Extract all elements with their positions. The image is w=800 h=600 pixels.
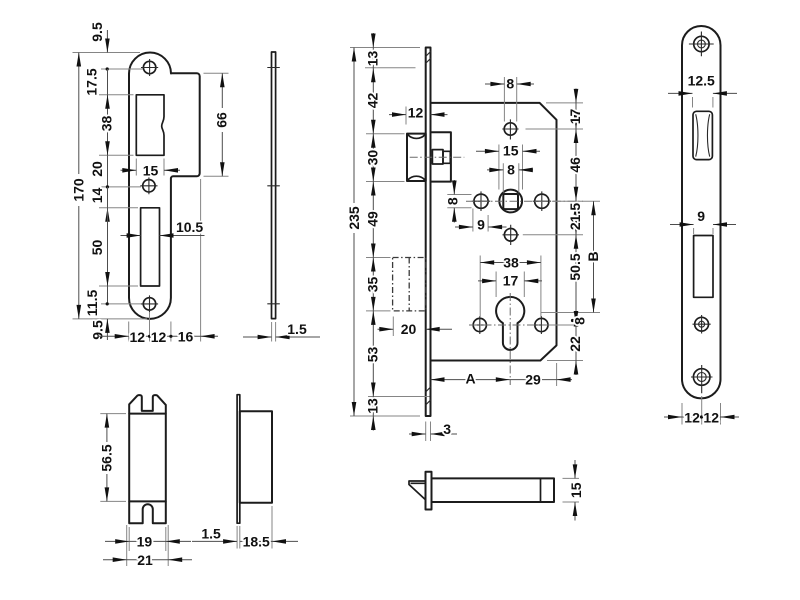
dimension 21	[103, 552, 192, 568]
svg-text:35: 35	[364, 277, 380, 293]
dimension 170	[71, 53, 87, 319]
svg-text:13: 13	[364, 51, 380, 67]
svg-text:19: 19	[137, 534, 153, 550]
strike box side view box	[240, 411, 272, 503]
faceplate bottom screw hole	[691, 365, 713, 393]
chain arrows	[371, 34, 376, 431]
extension lines 1.5 and 18.5	[237, 506, 272, 549]
right chain arrows	[574, 89, 579, 375]
dimension 20 left	[89, 155, 109, 188]
screw hole top	[141, 59, 158, 76]
dimension 8 mid hole diameter	[444, 180, 471, 223]
svg-text:12: 12	[684, 409, 700, 425]
svg-text:15: 15	[503, 143, 519, 159]
svg-text:12: 12	[408, 105, 424, 121]
dimension 50	[89, 208, 110, 286]
svg-text:11.5: 11.5	[84, 290, 100, 317]
svg-text:18.5: 18.5	[243, 534, 270, 550]
extension lines 15	[563, 478, 580, 502]
strike box bottom flange with slot	[129, 501, 166, 523]
faceplate top screw hole countersunk	[689, 32, 714, 57]
faceplate deadbolt window	[694, 236, 713, 298]
svg-text:66: 66	[214, 112, 230, 128]
svg-text:3: 3	[443, 421, 451, 437]
svg-text:56.5: 56.5	[99, 444, 115, 471]
svg-text:9: 9	[697, 208, 705, 224]
extension lines 66	[204, 73, 229, 176]
svg-text:8: 8	[506, 76, 514, 92]
dimension 11.5	[84, 286, 109, 316]
faceplate middle screw hole	[693, 315, 711, 334]
dimension 56.5	[99, 414, 115, 502]
svg-text:29: 29	[525, 371, 541, 387]
svg-text:9: 9	[477, 217, 485, 233]
latch stem	[443, 151, 450, 163]
dimension 9	[455, 209, 507, 233]
svg-text:50: 50	[89, 240, 105, 256]
extension lines 19 and 21	[127, 525, 169, 566]
dimension 12 12 bottom	[664, 409, 739, 425]
dimension 38	[99, 95, 115, 156]
right chain line	[575, 89, 577, 376]
svg-text:20: 20	[401, 321, 417, 337]
extension lines 12 12 bottom	[682, 396, 721, 425]
svg-text:1.5: 1.5	[201, 526, 221, 542]
left chain line	[372, 33, 374, 431]
dimension 3 faceplate thickness	[409, 421, 457, 441]
dimension 17 cylinder diameter	[478, 272, 542, 298]
dimension 12.5 latch window	[668, 73, 737, 108]
strike box side view lip plate	[237, 395, 240, 524]
svg-text:15: 15	[568, 482, 584, 498]
screw hole middle	[140, 177, 157, 194]
svg-text:38: 38	[503, 254, 519, 270]
dimension 12 latch protrusion	[389, 105, 448, 125]
latch tail block	[431, 132, 451, 181]
svg-text:49: 49	[364, 211, 380, 227]
svg-text:38: 38	[99, 116, 115, 132]
extension lines left chain of case	[350, 48, 430, 417]
faceplate front view plate	[682, 26, 721, 398]
faceplate top hatch	[425, 51, 430, 63]
dimension 20 deadbolt projection	[378, 317, 453, 337]
svg-text:B: B	[585, 251, 601, 261]
svg-text:17: 17	[503, 273, 519, 289]
latch centerline	[410, 156, 465, 158]
latch bolt beveled head wedge	[409, 481, 426, 500]
dimension 19	[105, 534, 191, 550]
faceplate bottom hatch	[425, 387, 430, 405]
side view screw hole ticks	[267, 68, 280, 304]
mid fixing hole left	[472, 191, 491, 211]
svg-text:53: 53	[364, 347, 380, 363]
svg-text:8: 8	[507, 161, 515, 177]
screw hole bottom	[141, 295, 158, 312]
deadbolt thrown position dashed	[393, 258, 426, 311]
small hole below hub	[503, 225, 520, 245]
svg-text:16: 16	[178, 329, 194, 345]
hub horizontal centerline	[466, 200, 583, 202]
svg-text:30: 30	[364, 150, 380, 166]
extension lines 56.5	[100, 414, 126, 502]
svg-text:46: 46	[567, 157, 583, 173]
dimension 10.5	[121, 219, 205, 238]
strike plate upper latch cutout	[136, 95, 164, 156]
dimension 15 latch height	[568, 460, 584, 521]
svg-text:17: 17	[567, 109, 583, 125]
dimension 18.5 box depth	[240, 534, 298, 550]
follower hub circle	[499, 190, 522, 213]
svg-text:14: 14	[89, 188, 105, 204]
svg-text:12: 12	[703, 409, 719, 425]
svg-text:21: 21	[137, 552, 153, 568]
svg-text:15: 15	[143, 163, 159, 179]
latch spring guide	[432, 150, 443, 164]
dimension 8 hub square	[487, 161, 533, 192]
dimension chain 12 12 16	[98, 329, 219, 346]
svg-text:235: 235	[346, 206, 362, 230]
extension lines left chain	[73, 53, 148, 319]
top fixing hole	[502, 119, 518, 139]
mid fixing hole right	[533, 191, 552, 211]
strike plate lower deadbolt cutout	[141, 208, 160, 286]
svg-text:21.5: 21.5	[567, 203, 583, 230]
svg-text:10.5: 10.5	[176, 219, 203, 235]
dimension 9.5 bottom	[90, 319, 110, 340]
dimension B	[585, 201, 601, 312]
svg-text:22: 22	[567, 336, 583, 352]
dimension 17.5	[84, 68, 108, 95]
dimension 1.5 strike plate thickness	[243, 321, 320, 339]
strike plate front view outline	[129, 53, 200, 319]
extension lines right chain	[523, 103, 600, 361]
cylinder vertical centerline	[509, 293, 511, 385]
svg-text:1.5: 1.5	[287, 321, 307, 337]
latch bolt side view faceplate bar	[426, 472, 432, 510]
svg-text:8: 8	[444, 197, 460, 205]
svg-text:170: 170	[71, 178, 87, 202]
lower holes centerline	[469, 324, 560, 326]
strike box top flange with prongs	[129, 395, 166, 414]
strike plate side view bar	[272, 52, 276, 319]
euro profile cylinder hole	[496, 297, 524, 350]
dimension 14	[89, 187, 110, 222]
latch bolt head cap line	[540, 478, 542, 502]
latch bolt body	[432, 478, 555, 502]
lower fixing hole left	[471, 316, 488, 334]
svg-text:12: 12	[130, 329, 146, 345]
dimension 66	[214, 73, 230, 176]
dimension 15 hub	[476, 143, 540, 190]
dimension 235	[346, 48, 362, 417]
dimension 8 top hole	[485, 76, 534, 122]
latch head	[407, 134, 426, 181]
dimension A backset and 29	[431, 363, 573, 387]
follower hub square 8mm	[503, 194, 518, 209]
svg-text:20: 20	[89, 161, 105, 177]
svg-text:12.5: 12.5	[688, 73, 715, 89]
faceplate latch window	[693, 111, 712, 159]
dimension 9 deadbolt window	[670, 208, 736, 234]
svg-text:8: 8	[572, 317, 588, 325]
svg-text:17.5: 17.5	[84, 68, 100, 95]
svg-text:9.5: 9.5	[89, 22, 105, 42]
svg-text:13: 13	[364, 398, 380, 414]
lower fixing hole right	[533, 316, 550, 334]
svg-text:A: A	[466, 371, 476, 387]
dimension 15 cutout	[121, 159, 181, 179]
svg-text:12: 12	[151, 329, 167, 345]
dimension 9.5 top	[89, 22, 110, 71]
lock case body outline	[431, 103, 557, 361]
side view extension lines	[272, 322, 276, 342]
extension lines bottom	[129, 179, 201, 342]
svg-text:50.5: 50.5	[567, 253, 583, 280]
chain label 8 with dot	[571, 317, 588, 325]
dimension 38 lower holes	[480, 254, 541, 317]
lock case faceplate front edge view	[426, 48, 431, 417]
svg-text:42: 42	[364, 93, 380, 109]
strike box front view body	[129, 414, 166, 502]
dimension 1.5 lip thickness	[192, 526, 237, 544]
